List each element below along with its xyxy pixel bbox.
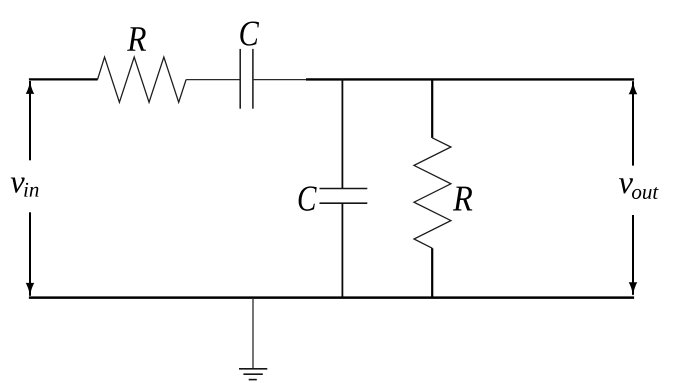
resistor R2 (shunt, vertical): [414, 138, 451, 248]
arrowhead vout up: [629, 81, 638, 95]
ground bar 3: [249, 379, 257, 381]
label C (shunt capacitor): [299, 186, 317, 211]
wire shunt-capacitor branch upper: [341, 79, 343, 189]
wire shunt-capacitor branch lower: [341, 203, 343, 298]
wire resistor to capacitor: [186, 79, 240, 81]
capacitor C2 (shunt) top plate: [320, 188, 368, 190]
capacitor C1 (series) left plate: [239, 49, 241, 109]
wire vout measurement line upper: [632, 81, 634, 165]
wire bottom rail: [29, 296, 634, 299]
ground bar 2: [243, 373, 262, 375]
wire top rail right: [306, 78, 634, 80]
resistor R1 (series, horizontal): [98, 57, 187, 102]
arrowhead vin up: [26, 80, 35, 94]
label vout: [619, 178, 659, 199]
capacitor C1 (series) right plate: [252, 49, 254, 109]
wire capacitor to node: [253, 79, 310, 81]
wire shunt-resistor branch lower: [431, 248, 433, 298]
arrowhead vout down: [629, 282, 638, 296]
label C (series capacitor): [240, 21, 259, 45]
label R (shunt resistor): [453, 187, 472, 211]
label R (series resistor): [127, 27, 146, 51]
capacitor C2 (shunt) bottom plate: [320, 202, 368, 204]
ground stem: [252, 298, 254, 368]
wire vin measurement line upper: [29, 81, 31, 160]
wire shunt-resistor branch upper: [431, 79, 433, 138]
wire top-left horizontal: [29, 78, 98, 80]
wire vout measurement line lower: [632, 215, 634, 295]
ground bar 1: [239, 368, 267, 370]
wire vin measurement line lower: [29, 212, 31, 295]
arrowhead vin down: [26, 283, 35, 297]
label vin: [11, 177, 39, 196]
